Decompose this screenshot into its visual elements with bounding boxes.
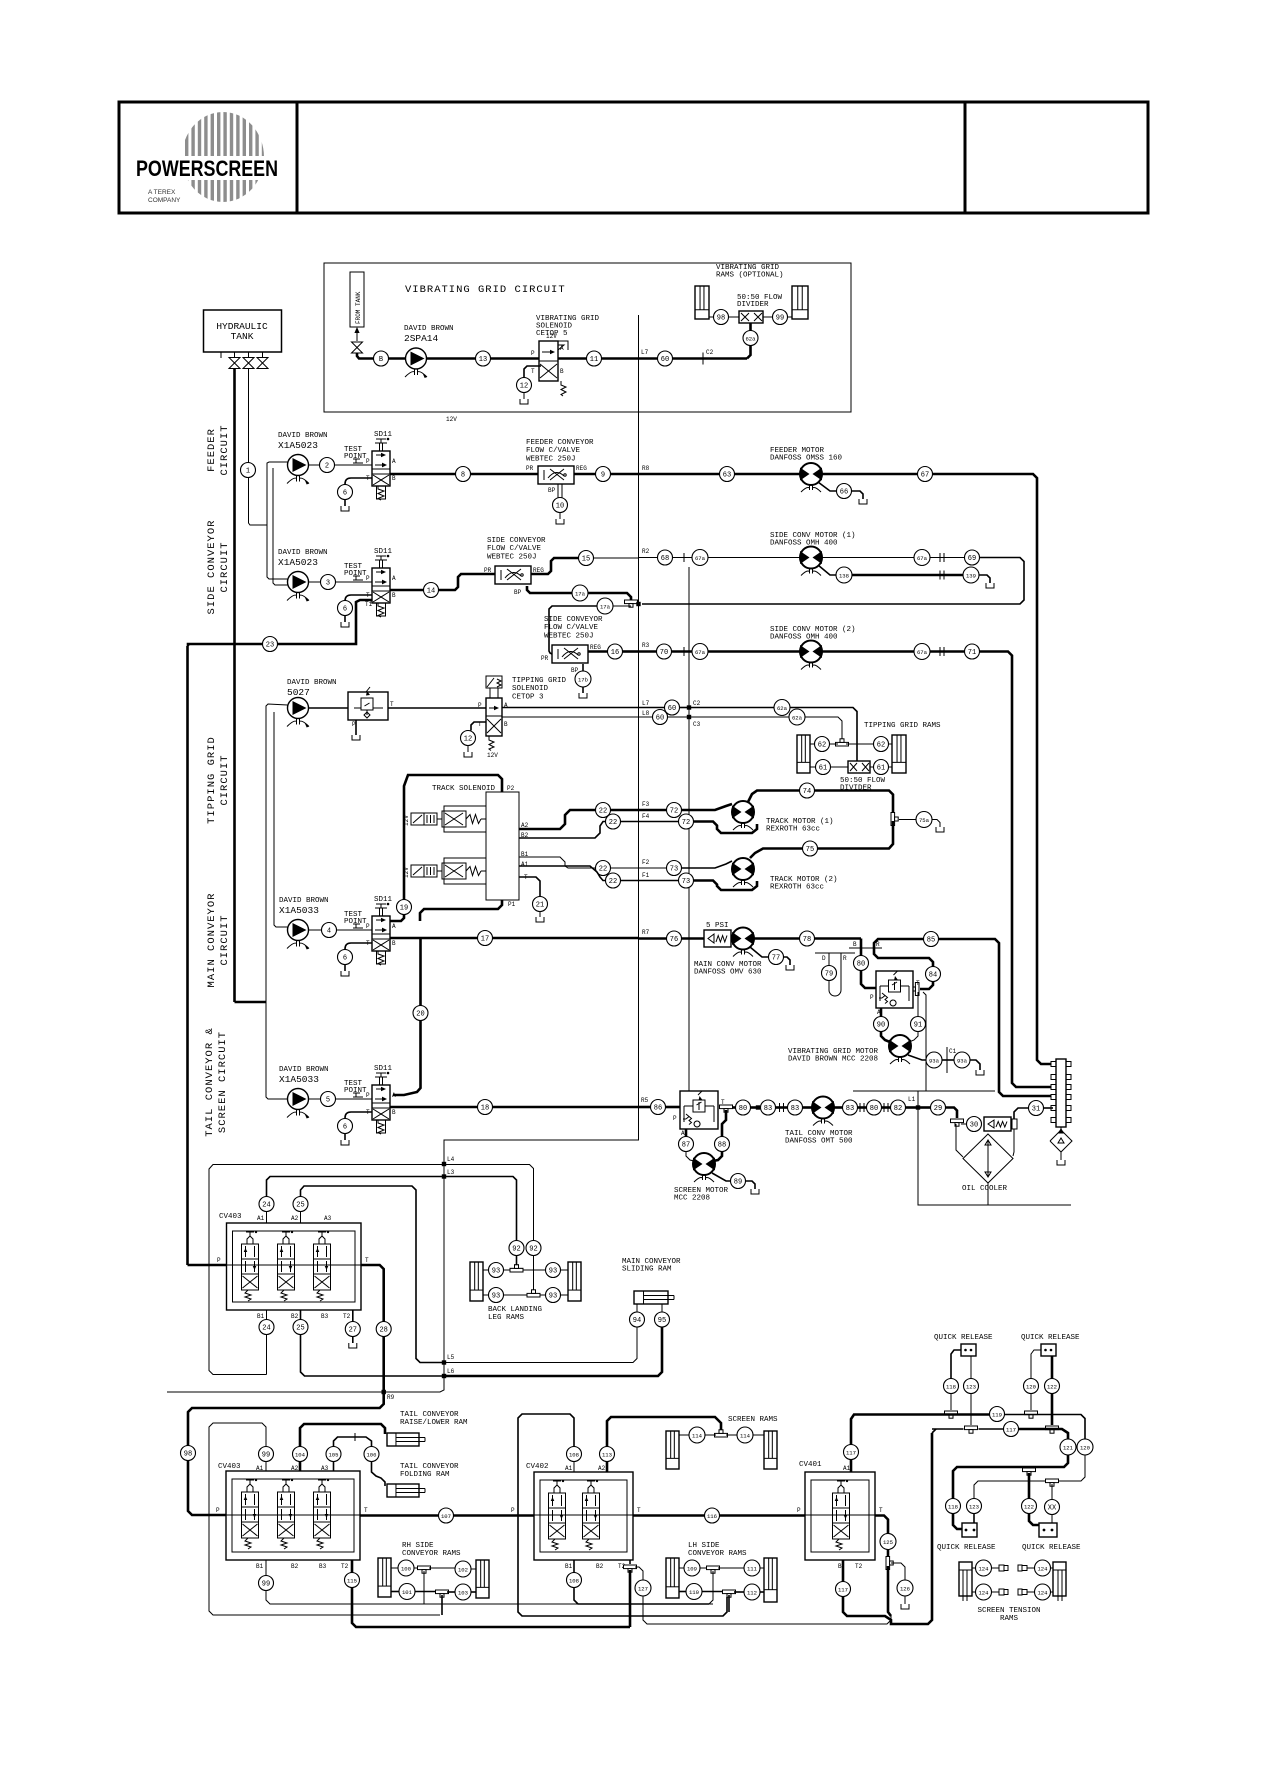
- node 107: [439, 1508, 454, 1523]
- arrowhead up: [354, 327, 359, 333]
- 124 to coupler ll: [992, 1591, 1000, 1593]
- svg-text:3: 3: [326, 579, 330, 587]
- node 22 f3: [596, 803, 611, 818]
- svg-text:REXROTH 63cc: REXROTH 63cc: [770, 884, 824, 892]
- motor to 78: [754, 937, 800, 940]
- 71 return corner down: [980, 652, 1052, 1088]
- svg-text:12: 12: [520, 382, 528, 390]
- suction feed tipping pump: [266, 704, 288, 1002]
- upper ram line right: [523, 1269, 546, 1271]
- screen rams tee: [715, 1430, 728, 1437]
- tank valve stub x262.5: [262, 352, 264, 357]
- svg-text:75: 75: [806, 846, 814, 854]
- powerscreen logo text band: [133, 156, 280, 180]
- 87 to screen motor: [686, 1152, 694, 1162]
- svg-text:93: 93: [492, 1292, 500, 1300]
- svg-text:8: 8: [461, 471, 465, 479]
- manifold stub right 3: [1066, 1095, 1071, 1100]
- cooler to box bottom: [987, 1183, 989, 1205]
- svg-text:CV402: CV402: [526, 1463, 549, 1471]
- 72 to motor1 under loop: [694, 822, 757, 834]
- hydraulic tank: [204, 310, 282, 352]
- node 111: [744, 1560, 760, 1576]
- lh ram left: [666, 1558, 679, 1598]
- svg-text:R: R: [843, 955, 847, 962]
- svg-text:SLIDING RAM: SLIDING RAM: [622, 1266, 672, 1274]
- 61 to right ram bottom: [889, 766, 893, 768]
- B1 line down: [266, 1310, 268, 1320]
- C2 line to 62a: [689, 707, 775, 709]
- svg-text:17a: 17a: [575, 590, 586, 597]
- node 118 bottom: [946, 1499, 961, 1514]
- tank under 66: [859, 499, 867, 504]
- svg-text:B: B: [392, 475, 396, 482]
- node 93 ul: [489, 1263, 504, 1278]
- node 61 right: [874, 760, 889, 775]
- 5 PSI check valve: [704, 930, 731, 947]
- svg-text:T2: T2: [855, 1563, 863, 1570]
- svg-text:FLOW C/VALVE: FLOW C/VALVE: [487, 545, 542, 553]
- track B2 line: [519, 822, 606, 839]
- node 90: [874, 1017, 889, 1032]
- node 83 tail2: [788, 1100, 803, 1115]
- node 60 L7: [665, 700, 680, 715]
- lower ram line right: [540, 1294, 546, 1296]
- 18 to R5: [493, 1106, 639, 1109]
- svg-text:29: 29: [934, 1105, 942, 1113]
- 139 to tank elbow: [979, 575, 990, 583]
- tee to 126: [891, 1563, 905, 1580]
- tee to 62 right: [846, 743, 874, 745]
- 122 to tee 117b: [1051, 1394, 1054, 1426]
- 20 riser line: [393, 938, 421, 1095]
- svg-text:QUICK RELEASE: QUICK RELEASE: [1021, 1334, 1080, 1342]
- R9 junction dot: [382, 1390, 386, 1394]
- track motor1 top out: [748, 791, 800, 803]
- tee 122-117: [1046, 1426, 1059, 1433]
- node 70: [657, 644, 672, 659]
- tee to xx: [1051, 1484, 1053, 1499]
- lh tee1 drop: [712, 1571, 714, 1600]
- node 98: [181, 1446, 196, 1461]
- svg-text:67a: 67a: [695, 649, 706, 656]
- side valve T drain to 6: [345, 595, 372, 601]
- track solenoid valve 1: [167, 315, 1093, 1627]
- svg-text:2SPA14: 2SPA14: [404, 333, 439, 344]
- svg-text:P: P: [366, 923, 370, 930]
- T2 down 115: [351, 1560, 354, 1573]
- svg-text:QUICK RELEASE: QUICK RELEASE: [934, 1334, 993, 1342]
- svg-text:101: 101: [402, 1589, 413, 1596]
- L4 line right: [444, 1165, 534, 1241]
- svg-text:13: 13: [479, 356, 487, 364]
- svg-text:17b: 17b: [578, 676, 588, 683]
- coupler lr: [1018, 1589, 1022, 1595]
- node 68: [658, 550, 673, 565]
- 13 to valve line: [491, 357, 540, 360]
- pump2 out to 2: [309, 464, 320, 466]
- 103 to rh right ram: [471, 1591, 476, 1593]
- CV403b T to 107: [360, 1514, 439, 1517]
- pump main conveyor X1A5033: [287, 920, 309, 950]
- tank under filter: [1057, 1160, 1065, 1165]
- C3 line to 62a2: [689, 716, 790, 718]
- L1 junction dot: [916, 1105, 920, 1109]
- manifold stub left 0: [1051, 1062, 1056, 1067]
- junction dot 83: [756, 1105, 760, 1109]
- svg-text:A: A: [392, 458, 396, 465]
- node 61 left: [816, 760, 831, 775]
- R8 to 63: [639, 473, 720, 476]
- 124 lr to ram: [1051, 1591, 1054, 1593]
- svg-text:P: P: [870, 994, 874, 1001]
- svg-text:R8: R8: [642, 465, 650, 472]
- fitting down to 75: [818, 821, 894, 849]
- lh lower line a: [679, 1591, 687, 1593]
- CV402 T to 116: [633, 1514, 705, 1517]
- tank symbol under 12: [520, 399, 528, 404]
- screen T branch to 88: [722, 1110, 726, 1137]
- C1 tick: [946, 1047, 948, 1073]
- CV401 T line to 125: [875, 1516, 888, 1535]
- svg-text:17: 17: [481, 935, 489, 943]
- node 123 top: [964, 1379, 979, 1394]
- motor case drain to 66: [818, 482, 837, 491]
- CV402 B1 down: [573, 1560, 575, 1573]
- svg-text:93: 93: [492, 1267, 500, 1275]
- F1 to 73 b: [639, 880, 679, 882]
- svg-text:12V: 12V: [446, 416, 457, 423]
- svg-text:93a: 93a: [957, 1057, 968, 1064]
- svg-text:19: 19: [400, 904, 408, 912]
- svg-text:SD11: SD11: [374, 431, 393, 439]
- svg-text:105: 105: [328, 1451, 338, 1458]
- tipping pump out: [309, 707, 349, 709]
- tank shutoff valve x262.5: [257, 358, 268, 369]
- svg-text:LH SIDE: LH SIDE: [688, 1542, 720, 1550]
- pump tipping 5027: [287, 698, 309, 728]
- lh upper line a: [679, 1567, 685, 1569]
- node 28: [376, 1322, 391, 1337]
- node 10: [553, 498, 568, 513]
- L5 line to 94: [444, 1327, 637, 1363]
- tipping grid ram right: [892, 735, 906, 773]
- B port tick: [849, 947, 868, 949]
- tension 124 ul line: [972, 1567, 976, 1569]
- svg-text:22: 22: [599, 807, 607, 815]
- 127 down to rail: [643, 1596, 891, 1624]
- test point main: [353, 924, 363, 928]
- node 79: [822, 966, 837, 981]
- rh upper line a: [391, 1567, 399, 1569]
- svg-text:95: 95: [658, 1317, 666, 1325]
- main conveyor sliding ram: [634, 1291, 674, 1304]
- main valve B out to 17: [390, 937, 478, 940]
- svg-text:SOLENOID: SOLENOID: [512, 685, 549, 693]
- manifold stub left 4: [1051, 1106, 1056, 1111]
- node 76: [667, 931, 682, 946]
- svg-text:124: 124: [978, 1565, 989, 1572]
- svg-text:DAVID BROWN MCC 2208: DAVID BROWN MCC 2208: [788, 1056, 878, 1064]
- svg-text:A3: A3: [324, 1215, 332, 1222]
- node B: [374, 351, 389, 366]
- 17b to tank: [582, 687, 584, 693]
- svg-text:A1: A1: [256, 1465, 264, 1472]
- node 87: [679, 1137, 694, 1152]
- filter to tank: [1060, 1152, 1062, 1160]
- svg-text:B3: B3: [319, 1563, 327, 1570]
- side valve B out to 14: [390, 589, 424, 592]
- node 62a mid1: [774, 700, 790, 716]
- tee to 30: [961, 1123, 967, 1125]
- svg-text:14: 14: [427, 587, 435, 595]
- 117 line mid: [979, 1428, 1004, 1430]
- node 72 f4: [679, 814, 694, 829]
- svg-text:93: 93: [549, 1267, 557, 1275]
- svg-text:1: 1: [246, 467, 250, 475]
- svg-text:62: 62: [877, 741, 885, 749]
- screen motor drain to 89: [712, 1173, 731, 1181]
- svg-text:123: 123: [966, 1383, 976, 1390]
- 22 to F3: [611, 809, 639, 812]
- svg-text:94: 94: [633, 1317, 641, 1325]
- node 123 bottom: [967, 1499, 982, 1514]
- svg-text:DANFOSS OMH 400: DANFOSS OMH 400: [770, 634, 838, 642]
- 10 to tank: [559, 513, 561, 520]
- svg-text:PR: PR: [541, 655, 549, 662]
- 120 to tee 119b: [1030, 1394, 1032, 1411]
- C3 junction dot: [687, 715, 691, 719]
- 99 to rams line: [266, 1591, 713, 1605]
- svg-text:112: 112: [747, 1589, 757, 1596]
- svg-text:TAIL CONVEYOR: TAIL CONVEYOR: [400, 1463, 459, 1471]
- svg-text:108: 108: [569, 1577, 579, 1584]
- 123 into qr box: [973, 1514, 975, 1528]
- node 99 bottom: [259, 1576, 274, 1591]
- 9 to R8: [611, 473, 639, 476]
- screen motor MCC2208: [693, 1153, 715, 1182]
- svg-text:4: 4: [327, 927, 331, 935]
- L6 junction dot: [442, 1374, 446, 1378]
- track motor 2 rexroth 63cc: [732, 858, 754, 887]
- main motor drain to 77: [750, 947, 769, 957]
- tipping relief valve block: [348, 687, 388, 720]
- svg-text:66: 66: [840, 488, 848, 496]
- node 91: [911, 1017, 926, 1032]
- L6 line to 95: [444, 1327, 662, 1376]
- pump feeder X1A5023: [287, 455, 309, 485]
- node 75a: [916, 812, 932, 828]
- svg-text:98: 98: [717, 314, 725, 322]
- svg-text:DANFOSS OMV 630: DANFOSS OMV 630: [694, 969, 762, 977]
- R7 tick: [638, 932, 640, 944]
- svg-text:POINT: POINT: [344, 1087, 367, 1095]
- svg-text:A2: A2: [291, 1465, 299, 1472]
- motor to 83 r: [834, 1106, 843, 1109]
- feeder valve B out to 8: [390, 473, 456, 476]
- svg-text:F1: F1: [642, 872, 650, 879]
- 80 to brake valve: [861, 971, 876, 989]
- svg-text:R9: R9: [387, 1394, 395, 1401]
- 119 line right corner: [1005, 1415, 1086, 1440]
- svg-text:82: 82: [894, 1105, 902, 1113]
- svg-text:A2: A2: [598, 1465, 606, 1472]
- solenoid valve SD11 side conveyor: [365, 548, 396, 617]
- svg-text:FEEDER: FEEDER: [206, 428, 218, 472]
- tank under 77: [786, 965, 794, 970]
- svg-text:116: 116: [707, 1513, 717, 1520]
- 31 to manifold: [1044, 1107, 1054, 1109]
- R2 tick: [638, 552, 640, 564]
- svg-text:X1A5023: X1A5023: [278, 557, 318, 568]
- rh lower line a: [391, 1591, 400, 1593]
- node 116: [705, 1508, 720, 1523]
- 91 to vib motor: [909, 1032, 918, 1043]
- lh upper line b: [718, 1567, 745, 1569]
- svg-text:R7: R7: [642, 929, 650, 936]
- node 24 top: [259, 1197, 274, 1212]
- svg-text:TIPPING GRID: TIPPING GRID: [512, 677, 567, 685]
- fcv2 REG to 16: [588, 650, 608, 653]
- check down to cooler: [1013, 1129, 1014, 1156]
- svg-text:T2: T2: [341, 1563, 349, 1570]
- svg-text:A1: A1: [843, 1465, 851, 1472]
- svg-text:TIPPING GRID RAMS: TIPPING GRID RAMS: [864, 722, 941, 730]
- svg-text:SCREEN TENSION: SCREEN TENSION: [977, 1607, 1040, 1615]
- tank valve stub x248.5: [248, 352, 250, 357]
- 22 to F1: [621, 880, 639, 882]
- svg-text:BACK LANDING: BACK LANDING: [488, 1306, 543, 1314]
- svg-text:87: 87: [682, 1141, 690, 1149]
- svg-text:B: B: [504, 721, 508, 728]
- svg-text:WEBTEC 250J: WEBTEC 250J: [526, 455, 576, 463]
- node 60 L8: [653, 710, 668, 725]
- side conveyor flow control valve 2: [552, 645, 588, 663]
- 101 to tee2: [415, 1591, 437, 1593]
- svg-text:6: 6: [343, 605, 347, 613]
- node 121: [1060, 1439, 1076, 1455]
- svg-text:L7: L7: [642, 700, 650, 707]
- motor housing drain D R: [815, 953, 855, 996]
- R port tick: [868, 947, 882, 949]
- 122 from qr box: [1051, 1356, 1054, 1379]
- 109 to lh tee: [700, 1567, 708, 1569]
- svg-text:110: 110: [689, 1589, 700, 1596]
- svg-text:A: A: [392, 923, 396, 930]
- svg-text:30: 30: [970, 1121, 978, 1129]
- L7 tick: [638, 353, 640, 365]
- tee to 62 left: [830, 743, 839, 745]
- svg-text:A: A: [392, 1092, 396, 1099]
- svg-text:T: T: [879, 1507, 883, 1514]
- 69 loop corner down: [642, 558, 1024, 605]
- svg-text:108: 108: [569, 1451, 579, 1458]
- track B1 line: [519, 857, 596, 868]
- tank under 139: [986, 583, 994, 588]
- 11 to L7 line: [602, 357, 658, 360]
- 118 to tee 119: [950, 1394, 952, 1411]
- cv402 T2 tee: [624, 1565, 637, 1572]
- track A1 line: [519, 866, 606, 881]
- svg-text:R5: R5: [641, 1097, 649, 1104]
- node 30: [967, 1117, 982, 1132]
- pump to 13 line: [389, 357, 476, 360]
- node 72 f3: [667, 803, 682, 818]
- 113 heavy to screen rams: [607, 1417, 721, 1447]
- manifold stub left 2: [1051, 1085, 1056, 1090]
- svg-text:T: T: [390, 701, 394, 708]
- 24b to L4 loop: [266, 1335, 268, 1375]
- 60 to C3 dot: [668, 716, 690, 718]
- screen line left: [705, 1434, 717, 1436]
- svg-text:CIRCUIT: CIRCUIT: [219, 541, 231, 592]
- node 124 lr: [1035, 1584, 1051, 1600]
- node 98 top: [714, 310, 729, 325]
- svg-text:63: 63: [723, 471, 731, 479]
- 108 loop left: [518, 1414, 727, 1616]
- solenoid valve SD11 main: [366, 896, 396, 965]
- 108 to rail: [574, 1588, 709, 1605]
- 23 rail down: [186, 646, 189, 1265]
- svg-text:99: 99: [776, 314, 784, 322]
- svg-text:104: 104: [295, 1451, 306, 1458]
- node 80 tail1: [736, 1100, 751, 1115]
- svg-text:TAIL CONVEYOR: TAIL CONVEYOR: [400, 1411, 459, 1419]
- suction line main (heavy): [233, 368, 236, 1002]
- svg-text:124: 124: [1037, 1565, 1048, 1572]
- svg-text:118: 118: [948, 1503, 958, 1510]
- node 25 top: [293, 1197, 308, 1212]
- svg-text:SD11: SD11: [374, 548, 393, 556]
- svg-text:60: 60: [656, 714, 664, 722]
- svg-text:REG: REG: [576, 465, 587, 472]
- node 22 f4: [606, 814, 621, 829]
- node 62 left: [815, 737, 830, 752]
- node 19: [397, 900, 412, 915]
- vibrating grid motor MCC2208: [889, 1035, 911, 1064]
- node 100: [398, 1560, 414, 1576]
- node 3: [321, 575, 336, 590]
- 117 to rail: [843, 1433, 932, 1624]
- svg-text:2: 2: [325, 462, 329, 470]
- node 17a upper: [572, 585, 588, 601]
- 95 to sliding ram: [661, 1304, 663, 1312]
- main conveyor motor danfoss OMV630: [732, 928, 754, 957]
- side fcv REG out to 15: [531, 558, 579, 574]
- node 93a 2: [954, 1052, 970, 1068]
- svg-text:T: T: [637, 1507, 641, 1514]
- quick release box left: [962, 1523, 977, 1537]
- svg-text:126: 126: [900, 1585, 910, 1592]
- svg-text:C1: C1: [949, 1048, 957, 1055]
- pump side conveyor X1A5023: [287, 572, 309, 602]
- svg-text:120: 120: [1026, 1383, 1037, 1390]
- node 12 tipping: [461, 731, 476, 746]
- svg-text:L6: L6: [447, 1368, 455, 1375]
- svg-text:L8: L8: [642, 710, 650, 717]
- svg-text:A1: A1: [565, 1465, 573, 1472]
- feeder valve T drain to 6: [345, 478, 372, 485]
- svg-text:B: B: [853, 941, 857, 948]
- dtick side2: [939, 647, 941, 656]
- L8 tick: [638, 711, 640, 723]
- svg-text:TANK: TANK: [231, 331, 254, 342]
- tipping grid solenoid valve CETOP 3: [478, 676, 508, 759]
- node 115: [345, 1573, 360, 1588]
- svg-text:B: B: [392, 1109, 396, 1116]
- 111 to lh right ram: [760, 1567, 764, 1569]
- node 109: [684, 1560, 700, 1576]
